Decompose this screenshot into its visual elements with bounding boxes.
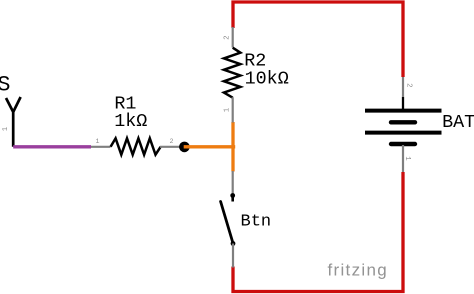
svg-text:10kΩ: 10kΩ [245, 68, 289, 89]
svg-text:1: 1 [223, 107, 231, 112]
battery pin 1 [402, 145, 404, 172]
svg-text:2: 2 [170, 138, 174, 145]
svg-text:Btn: Btn [241, 213, 272, 232]
connector S header pin symbol [6, 97, 21, 147]
battery plate long top [365, 109, 442, 113]
svg-text:S: S [0, 73, 10, 98]
battery plate long 2 [365, 131, 442, 135]
resistor R1 pin 1 [91, 146, 111, 148]
resistor R1 zigzag [111, 138, 161, 154]
wire purple [13, 145, 91, 148]
battery plate short 2 [391, 142, 415, 146]
resistor R1 pin 2 [160, 146, 180, 148]
button top stub [231, 196, 234, 202]
svg-text:1: 1 [2, 126, 10, 131]
button bottom pin [232, 244, 234, 268]
battery plate short 1 [391, 120, 415, 124]
button bottom terminal [231, 241, 236, 246]
svg-text:1: 1 [96, 138, 100, 145]
svg-text:1: 1 [403, 156, 411, 161]
svg-text:fritzing: fritzing [328, 261, 388, 280]
junction dot [179, 142, 190, 153]
svg-text:2: 2 [405, 83, 413, 87]
wire red top horizontal [233, 2, 403, 77]
battery lead top [402, 97, 404, 110]
svg-text:BAT: BAT [442, 112, 474, 133]
wire red bottom loop [233, 172, 403, 292]
wire orange horizontal [184, 145, 236, 148]
battery pin 2 [402, 77, 404, 110]
button top terminal [230, 193, 235, 198]
wire orange vertical [231, 122, 234, 172]
svg-text:2: 2 [223, 35, 231, 39]
button top pin [232, 171, 234, 195]
resistor R2 pin 2 [232, 27, 234, 48]
resistor R2 pin 1 [232, 97, 234, 122]
button lever [221, 202, 233, 243]
svg-text:1kΩ: 1kΩ [114, 111, 147, 132]
resistor R2 zigzag [224, 48, 241, 98]
